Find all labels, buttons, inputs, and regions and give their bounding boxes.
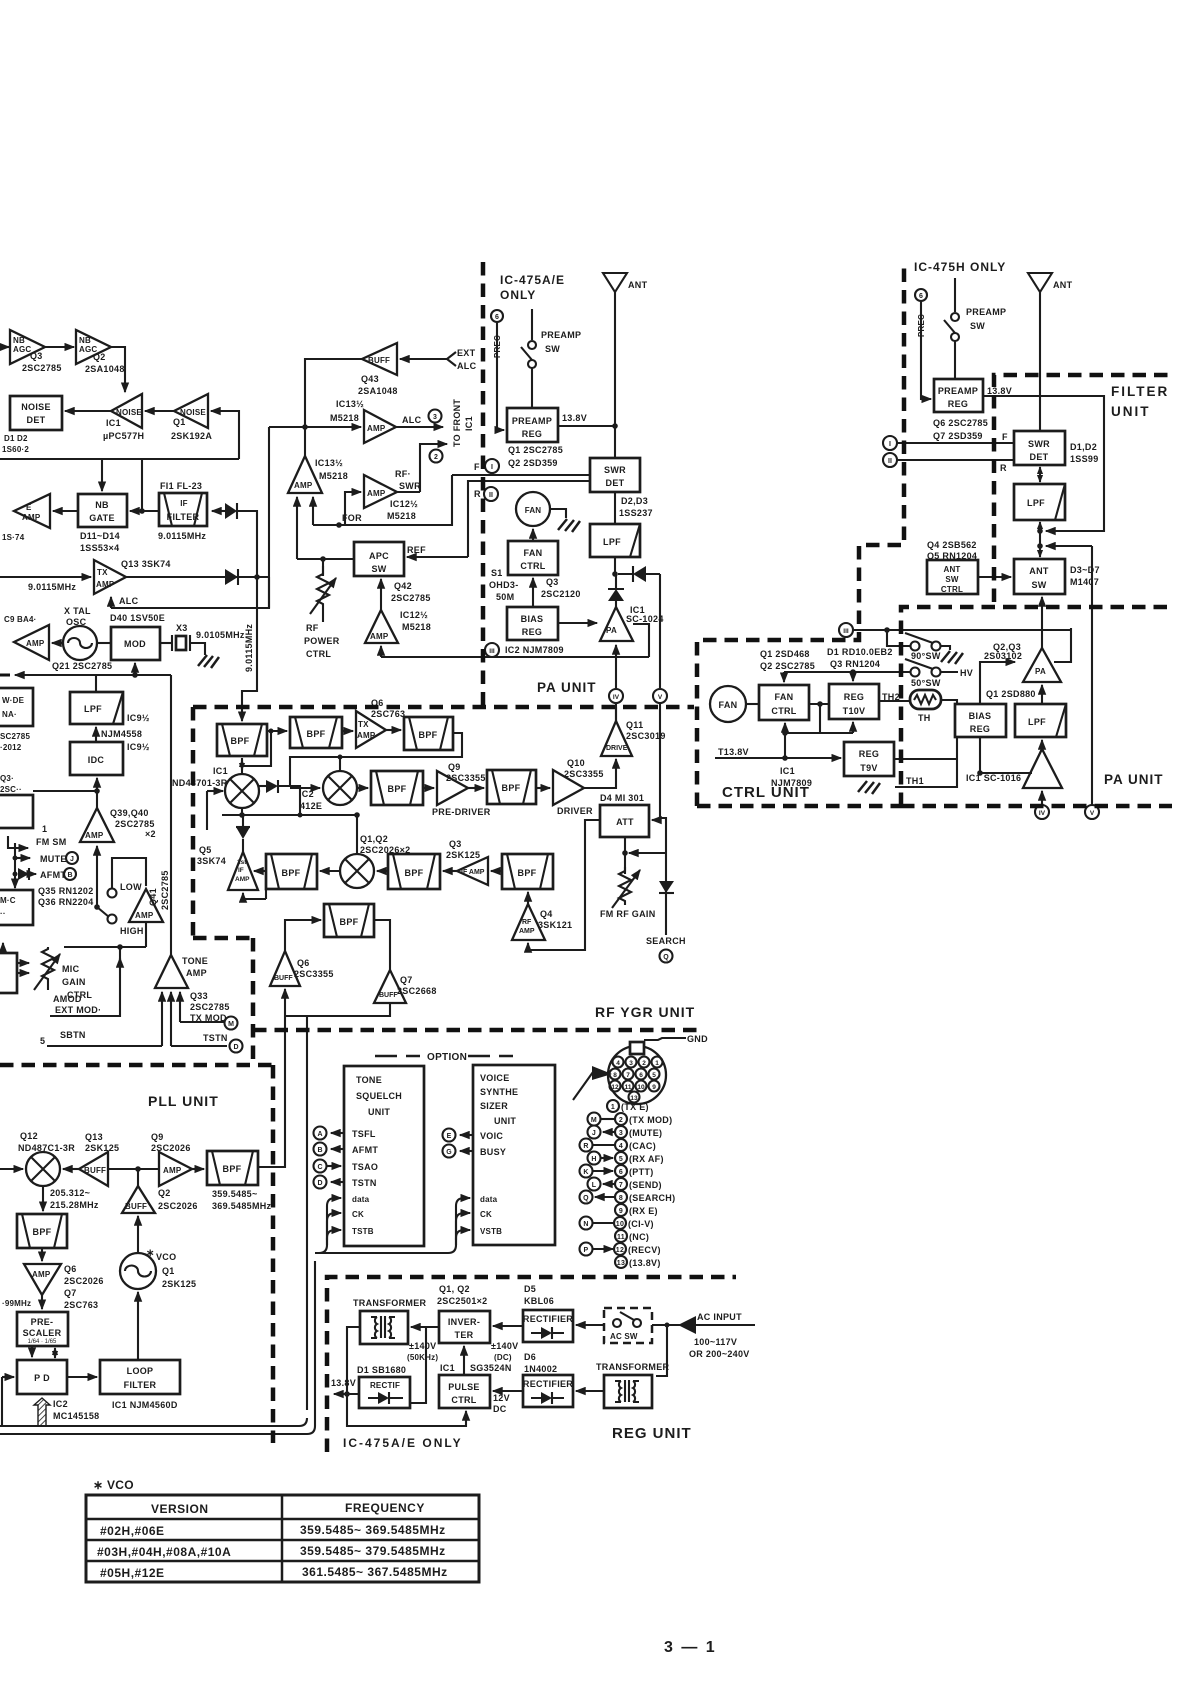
wire 50SW to HV xyxy=(940,671,958,673)
node C xyxy=(314,1160,327,1173)
svg-text:D40 1SV50E: D40 1SV50E xyxy=(110,613,165,623)
tone amp xyxy=(155,955,188,988)
wire 90SW to ground xyxy=(940,646,950,650)
border PLL right xyxy=(271,1065,276,1443)
BPF 4 xyxy=(371,771,423,805)
svg-text:CK: CK xyxy=(352,1210,364,1219)
svg-text:MIC: MIC xyxy=(62,964,80,974)
svg-text:R: R xyxy=(1000,463,1007,473)
svg-text:TSTB: TSTB xyxy=(352,1227,374,1236)
svg-text:3: 3 xyxy=(619,1130,623,1137)
svg-text:BIAS: BIAS xyxy=(969,711,992,721)
wire to TX amp xyxy=(342,730,353,732)
svg-text:(MUTE): (MUTE) xyxy=(629,1128,662,1138)
idc box xyxy=(70,742,123,775)
PA module IC1 SC-1024 xyxy=(600,607,633,641)
crystal X3 xyxy=(172,635,190,651)
svg-text:data: data xyxy=(352,1195,370,1204)
svg-text:ND487C1-3R: ND487C1-3R xyxy=(18,1143,75,1153)
wires into tone amp xyxy=(161,992,163,1046)
svg-text:×2: ×2 xyxy=(145,829,156,839)
svg-text:PREAMP: PREAMP xyxy=(966,307,1006,317)
border CTRL unit xyxy=(697,262,904,806)
wire VCO to loop filter xyxy=(137,1292,139,1360)
svg-text:FAN: FAN xyxy=(719,700,738,710)
svg-text:AMP: AMP xyxy=(294,481,313,490)
svg-text:Q5: Q5 xyxy=(199,845,212,855)
svg-text:··: ·· xyxy=(0,909,6,918)
BPF 2 xyxy=(290,717,342,748)
svg-text:Q1 2SD468: Q1 2SD468 xyxy=(760,649,810,659)
svg-text:Q21 2SC2785: Q21 2SC2785 xyxy=(52,661,112,671)
wire amp to BPF xyxy=(192,1168,204,1170)
wire 13.8 to pulse bottom xyxy=(347,1394,466,1426)
fan ctrl box xyxy=(759,685,809,720)
svg-text:Q3: Q3 xyxy=(546,577,559,587)
svg-text:M: M xyxy=(591,1117,597,1124)
svg-text:TSAO: TSAO xyxy=(352,1162,378,1172)
AFMT line with diode xyxy=(18,868,29,880)
svg-text:Q13 3SK74: Q13 3SK74 xyxy=(121,559,171,569)
wire noise line down to NB GATE input xyxy=(141,459,143,511)
wire audio rail xyxy=(23,674,171,676)
svg-text:2SC2501×2: 2SC2501×2 xyxy=(437,1296,488,1306)
wire APC left rail xyxy=(297,558,354,560)
svg-text:(DC): (DC) xyxy=(494,1353,512,1362)
svg-text:OSC: OSC xyxy=(66,617,87,627)
wire PLL bottom buses xyxy=(0,1418,307,1426)
svg-text:PREAMP: PREAMP xyxy=(512,416,552,426)
svg-text:Q: Q xyxy=(583,1195,589,1202)
svg-text:2SC3019: 2SC3019 xyxy=(626,731,666,741)
svg-text:FM SM: FM SM xyxy=(36,837,67,847)
node Q search xyxy=(660,950,673,963)
wire IF amp to BPF xyxy=(443,870,457,872)
prescaler box xyxy=(17,1312,68,1346)
amp Q2 NB AGC xyxy=(76,330,111,364)
svg-text:±140V: ±140V xyxy=(409,1341,436,1351)
inverter box xyxy=(439,1311,490,1343)
svg-text:D1 RD10.0EB2: D1 RD10.0EB2 xyxy=(827,647,893,657)
svg-text:INVER-: INVER- xyxy=(448,1317,480,1327)
svg-text:PREAMP: PREAMP xyxy=(541,330,581,340)
wire amp to prescaler xyxy=(41,1295,43,1309)
svg-text:Q42: Q42 xyxy=(394,581,412,591)
wire amp IC12 out to APC xyxy=(380,579,382,610)
svg-text:7: 7 xyxy=(619,1182,623,1189)
partial box MIC xyxy=(0,890,33,925)
svg-text:ANT: ANT xyxy=(943,565,960,574)
svg-text:RF: RF xyxy=(306,623,319,633)
wire osc to MOD xyxy=(97,642,111,644)
svg-text:2SC2026: 2SC2026 xyxy=(151,1143,191,1153)
svg-text:Q7: Q7 xyxy=(64,1288,77,1298)
border RF YGR left xyxy=(193,707,253,1065)
svg-text:V: V xyxy=(658,694,663,701)
svg-text:TONE: TONE xyxy=(356,1075,382,1085)
svg-text:Q39,Q40: Q39,Q40 xyxy=(110,808,149,818)
svg-text:SQUELCH: SQUELCH xyxy=(356,1091,402,1101)
wire mixer to BPF4 xyxy=(357,787,368,789)
svg-text:(RX E): (RX E) xyxy=(629,1206,658,1216)
svg-text:D2,D3: D2,D3 xyxy=(621,496,648,506)
svg-text:13: 13 xyxy=(617,1260,625,1267)
wire RF SWR out to line2 xyxy=(397,491,420,493)
svg-text:IC12½: IC12½ xyxy=(390,499,418,509)
svg-text:AMP: AMP xyxy=(519,928,535,935)
svg-text:PULSE: PULSE xyxy=(448,1382,480,1392)
amp IC1 NOISE xyxy=(111,394,142,428)
svg-text:TH1: TH1 xyxy=(906,776,924,786)
svg-text:IC-475H ONLY: IC-475H ONLY xyxy=(914,260,1006,274)
svg-text:10: 10 xyxy=(637,1084,645,1091)
svg-text:R: R xyxy=(583,1143,588,1150)
amp E xyxy=(14,494,50,528)
svg-text:2SK125: 2SK125 xyxy=(85,1143,119,1153)
svg-text:2SK125: 2SK125 xyxy=(162,1279,196,1289)
voice synthesizer unit box xyxy=(473,1065,555,1245)
noise det box xyxy=(10,396,62,430)
svg-text:D1,D2: D1,D2 xyxy=(1070,442,1097,452)
svg-text:IC1: IC1 xyxy=(780,766,795,776)
wire AC to transformer T2 xyxy=(656,1325,667,1376)
partial box WIDE/NAR xyxy=(0,688,33,726)
svg-text:2SC2026: 2SC2026 xyxy=(158,1201,198,1211)
ground fan xyxy=(558,519,580,532)
svg-text:3 — 1: 3 — 1 xyxy=(664,1639,717,1656)
svg-text:Q13: Q13 xyxy=(85,1132,103,1142)
pre-driver Q9 xyxy=(437,771,468,805)
svg-text:Q2: Q2 xyxy=(158,1188,171,1198)
svg-text:RF: RF xyxy=(522,919,532,926)
svg-text:SWR: SWR xyxy=(1028,439,1050,449)
svg-text:C: C xyxy=(317,1164,322,1171)
svg-text:#03H,#04H,#08A,#10A: #03H,#04H,#08A,#10A xyxy=(97,1545,231,1559)
wire TONE AMP riser xyxy=(170,675,172,955)
IF filter FI1 FL-23 xyxy=(159,493,207,526)
svg-text:UNIT: UNIT xyxy=(1111,404,1151,419)
svg-text:Q2 2SD359: Q2 2SD359 xyxy=(508,458,558,468)
AC SW dashed box xyxy=(604,1308,652,1343)
svg-text:REG: REG xyxy=(859,749,879,759)
svg-text:PA: PA xyxy=(1035,667,1046,676)
svg-text:359.5485~: 359.5485~ xyxy=(212,1189,258,1199)
svg-text:RECTIF: RECTIF xyxy=(370,1381,400,1390)
wire 13.8V loop xyxy=(983,396,1104,531)
wire to NB GATE top xyxy=(101,459,103,491)
svg-text:IC13½: IC13½ xyxy=(315,458,343,468)
svg-text:VCO: VCO xyxy=(156,1252,176,1262)
svg-text:D11~D14: D11~D14 xyxy=(80,531,120,541)
wire PREC to preamp reg xyxy=(497,322,504,430)
tone squelch unit box xyxy=(344,1066,424,1246)
svg-text:S1: S1 xyxy=(491,568,503,578)
svg-text:D1 D2: D1 D2 xyxy=(4,434,28,443)
wire Q2 to NOISE amp xyxy=(111,347,125,392)
svg-text:Q4: Q4 xyxy=(540,909,553,919)
border REG unit xyxy=(327,1277,736,1452)
svg-text:B: B xyxy=(317,1147,322,1154)
BPF PLL out xyxy=(207,1151,258,1185)
svg-text:50°SW: 50°SW xyxy=(911,678,941,688)
svg-text:D5: D5 xyxy=(524,1284,536,1294)
svg-text:PREAMP: PREAMP xyxy=(938,386,978,396)
svg-text:IV: IV xyxy=(613,694,620,701)
wire ATT bottom xyxy=(624,837,626,853)
svg-text:3: 3 xyxy=(433,414,437,421)
svg-text:Q9: Q9 xyxy=(151,1132,164,1142)
wire REF xyxy=(407,556,468,558)
svg-text:2SC··: 2SC·· xyxy=(0,785,22,794)
wire data bus voice xyxy=(456,1198,470,1245)
loop filter box xyxy=(100,1360,180,1394)
svg-text:BPF: BPF xyxy=(405,868,424,878)
svg-text:Q1: Q1 xyxy=(162,1266,175,1276)
wire MOD to crystal xyxy=(160,642,172,644)
wire to BPF5 xyxy=(468,787,484,789)
svg-text:TSTN: TSTN xyxy=(352,1178,377,1188)
TSTN line xyxy=(171,1045,227,1047)
svg-text:Q36 RN2204: Q36 RN2204 xyxy=(38,897,94,907)
svg-text:2SC2785: 2SC2785 xyxy=(391,593,431,603)
svg-text:ANT: ANT xyxy=(1029,566,1049,576)
wire ALC to front xyxy=(396,426,443,428)
svg-text:11: 11 xyxy=(617,1234,625,1241)
svg-text:B: B xyxy=(67,872,72,879)
svg-text:REG: REG xyxy=(522,429,542,439)
svg-text:BUFF: BUFF xyxy=(274,975,293,982)
wire preamp reg 13.8V to ant line xyxy=(558,425,615,427)
svg-text:GND: GND xyxy=(687,1034,708,1044)
svg-text:BPF: BPF xyxy=(223,1164,242,1174)
svg-text:6: 6 xyxy=(639,1072,643,1079)
wire IF tap to Q1 xyxy=(211,411,239,459)
svg-text:BPF: BPF xyxy=(340,917,359,927)
modulator box D40 xyxy=(111,627,160,660)
svg-text:AMP: AMP xyxy=(26,639,45,648)
svg-text:8: 8 xyxy=(613,1072,617,1079)
svg-text:1: 1 xyxy=(42,824,47,834)
svg-text:AGC: AGC xyxy=(13,345,31,354)
wire III rail xyxy=(853,629,1071,631)
pin 2 M xyxy=(588,1113,601,1126)
wire AC SW to rectifier xyxy=(576,1324,604,1326)
svg-text:IC2 NJM7809: IC2 NJM7809 xyxy=(505,645,564,655)
wire ctrl to ant sw xyxy=(978,576,1011,578)
svg-text:Q43: Q43 xyxy=(361,374,379,384)
svg-text:2SK125: 2SK125 xyxy=(446,850,480,860)
svg-text:50M: 50M xyxy=(496,592,514,602)
svg-text:IC12½: IC12½ xyxy=(400,610,428,620)
node G xyxy=(443,1145,456,1158)
pin 3 J xyxy=(588,1126,601,1139)
svg-text:IC1: IC1 xyxy=(440,1363,455,1373)
svg-text:AC INPUT: AC INPUT xyxy=(697,1312,742,1322)
APC SW box xyxy=(354,542,404,576)
ground T9V xyxy=(858,781,880,794)
svg-text:(PTT): (PTT) xyxy=(629,1167,654,1177)
svg-text:LOW: LOW xyxy=(120,882,142,892)
AMOD line xyxy=(50,947,120,1016)
buffer Q6 xyxy=(270,951,300,986)
svg-text:3SK74: 3SK74 xyxy=(197,856,226,866)
wire mic gain rail xyxy=(64,946,146,948)
variable resistor MIC GAIN xyxy=(42,947,54,990)
fan A/E xyxy=(516,492,550,526)
svg-text:FILTER: FILTER xyxy=(124,1380,157,1390)
wire PA input from IV xyxy=(615,703,617,721)
amp Q3 NB AGC xyxy=(10,330,45,364)
pulse ctrl box xyxy=(439,1375,490,1408)
pin 11 xyxy=(615,1230,627,1242)
svg-text:(TX E): (TX E) xyxy=(621,1102,649,1112)
svg-text:AMP: AMP xyxy=(22,513,41,522)
svg-text:Q6: Q6 xyxy=(297,958,310,968)
wire amp Q41 bottom xyxy=(145,922,147,947)
svg-text:SW: SW xyxy=(1031,580,1046,590)
rectif D1 box xyxy=(359,1377,410,1408)
svg-text:2SC2785: 2SC2785 xyxy=(115,819,155,829)
svg-text:SW: SW xyxy=(945,575,959,584)
pin 1 xyxy=(607,1100,619,1112)
diode search xyxy=(659,881,674,893)
svg-text:DET: DET xyxy=(1030,452,1049,462)
svg-text:Q1 2SC2785: Q1 2SC2785 xyxy=(508,445,563,455)
svg-text:µPC577H: µPC577H xyxy=(103,431,144,441)
svg-text:BPF: BPF xyxy=(231,736,250,746)
svg-text:DET: DET xyxy=(27,415,46,425)
svg-text:ALC: ALC xyxy=(119,596,139,606)
svg-text:III: III xyxy=(489,648,495,655)
svg-text:EXT: EXT xyxy=(457,348,476,358)
driver amp right xyxy=(1023,749,1062,788)
svg-text:3: 3 xyxy=(629,1060,633,1067)
svg-text:NOISE: NOISE xyxy=(116,408,142,417)
svg-text:FAN: FAN xyxy=(525,506,542,515)
svg-text:7: 7 xyxy=(626,1072,630,1079)
wire PD to loop filter xyxy=(67,1376,97,1378)
svg-text:NB: NB xyxy=(79,336,91,345)
svg-text:2SC2668: 2SC2668 xyxy=(397,986,437,996)
svg-text:13.8V: 13.8V xyxy=(562,413,587,423)
TX amp Q13 xyxy=(94,560,126,594)
wire filter to NB GATE xyxy=(130,510,159,512)
svg-text:OR 200~240V: OR 200~240V xyxy=(689,1349,750,1359)
svg-text:9: 9 xyxy=(652,1084,656,1091)
svg-text:AMP: AMP xyxy=(367,424,386,433)
reg T10V box xyxy=(829,684,879,719)
svg-text:1N4002: 1N4002 xyxy=(524,1364,557,1374)
svg-text:M5218: M5218 xyxy=(402,622,431,632)
wire amp up out xyxy=(304,427,306,456)
svg-text:ALC: ALC xyxy=(457,361,477,371)
svg-text:TER: TER xyxy=(455,1330,474,1340)
svg-text:5: 5 xyxy=(619,1156,623,1163)
node V xyxy=(653,689,667,703)
buffer Q7 xyxy=(374,970,406,1003)
1st IF amp Q5 xyxy=(228,852,258,890)
svg-text:III: III xyxy=(843,628,849,635)
svg-text:G: G xyxy=(446,1149,452,1156)
svg-text:#05H,#12E: #05H,#12E xyxy=(100,1566,165,1580)
node D xyxy=(314,1176,327,1189)
wire IDC to LPF xyxy=(95,727,97,742)
wire into TX amp xyxy=(0,576,91,578)
border FILTER unit xyxy=(994,375,1170,602)
switch 50SW xyxy=(911,668,920,677)
svg-text:6: 6 xyxy=(495,314,499,321)
diode bypass horizontal xyxy=(633,566,646,582)
svg-text:13: 13 xyxy=(630,1095,638,1102)
RF amp Q4 xyxy=(512,904,545,940)
wire amp to IDC xyxy=(96,778,98,808)
svg-text:6: 6 xyxy=(619,1169,623,1176)
wire TH right xyxy=(895,700,957,787)
svg-text:1S60·2: 1S60·2 xyxy=(2,445,29,454)
svg-text:2: 2 xyxy=(642,1060,646,1067)
preamp switch H xyxy=(954,278,956,312)
svg-text:359.5485~ 369.5485MHz: 359.5485~ 369.5485MHz xyxy=(300,1523,446,1537)
wire into mixer left xyxy=(0,1168,23,1170)
svg-text:I: I xyxy=(491,464,493,471)
wire reg to TH xyxy=(879,700,910,702)
svg-text:TRANSFORMER: TRANSFORMER xyxy=(596,1362,669,1372)
partial box left edge xyxy=(0,795,33,828)
PD box xyxy=(17,1360,67,1394)
svg-text:2SA1048: 2SA1048 xyxy=(358,386,398,396)
svg-text:FM RF GAIN: FM RF GAIN xyxy=(600,909,656,919)
wire LOW loop to amp Q41 xyxy=(112,858,146,888)
svg-text:Q6: Q6 xyxy=(64,1264,77,1274)
svg-text:ANT: ANT xyxy=(628,280,648,290)
svg-text:Q5 RN1204: Q5 RN1204 xyxy=(927,551,977,561)
pin 10 N xyxy=(580,1217,593,1230)
svg-text:D: D xyxy=(317,1180,322,1187)
svg-text:IC2: IC2 xyxy=(53,1399,68,1409)
svg-text:II: II xyxy=(489,492,493,499)
svg-text:SEARCH: SEARCH xyxy=(646,936,686,946)
svg-text:·99MHz: ·99MHz xyxy=(2,1299,31,1308)
svg-text:IC-475A/E ONLY: IC-475A/E ONLY xyxy=(343,1436,463,1450)
svg-text:P D: P D xyxy=(34,1373,50,1383)
oscillator X TAL OSC Q21 xyxy=(63,626,97,660)
svg-text:FAN: FAN xyxy=(524,548,543,558)
diode D into IF line xyxy=(225,503,237,519)
partial box bottom-left xyxy=(0,953,17,993)
thermistor TH xyxy=(910,690,941,709)
svg-text:2SC2785: 2SC2785 xyxy=(190,1002,230,1012)
svg-text:2SC2785: 2SC2785 xyxy=(22,363,62,373)
wire 50SW rail to regs xyxy=(784,671,910,673)
svg-text:POWER: POWER xyxy=(304,636,340,646)
wire T1 to 13.8 rail xyxy=(347,1327,360,1394)
wire fan ctrl to fan xyxy=(532,529,534,541)
antenna H xyxy=(1028,273,1052,292)
wire into buff Q6 xyxy=(284,989,286,1016)
wire lower rail xyxy=(785,732,853,734)
svg-text:2: 2 xyxy=(619,1117,623,1124)
svg-text:8: 8 xyxy=(619,1195,623,1202)
svg-text:NB: NB xyxy=(13,336,25,345)
svg-text:E: E xyxy=(447,1133,452,1140)
svg-text:AMP: AMP xyxy=(32,1270,51,1279)
wire V rail to ATT xyxy=(659,703,661,818)
pin 12 P xyxy=(580,1243,593,1256)
svg-text:Q35 RN1202: Q35 RN1202 xyxy=(38,886,94,896)
svg-text:FAN: FAN xyxy=(775,692,794,702)
svg-text:BUFF: BUFF xyxy=(379,992,398,999)
svg-text:T10V: T10V xyxy=(843,706,866,716)
